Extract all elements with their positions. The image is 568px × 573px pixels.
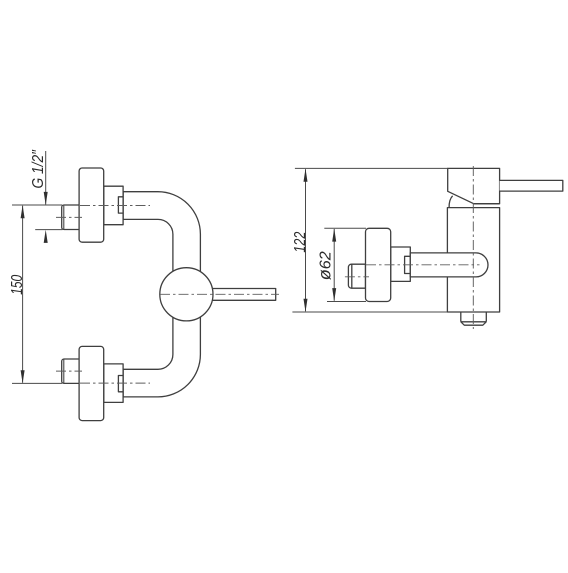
svg-text:122: 122 bbox=[292, 231, 309, 252]
svg-text:ø62: ø62 bbox=[315, 251, 335, 280]
svg-text:G 1/2″: G 1/2″ bbox=[30, 150, 47, 189]
svg-text:150: 150 bbox=[9, 275, 26, 295]
